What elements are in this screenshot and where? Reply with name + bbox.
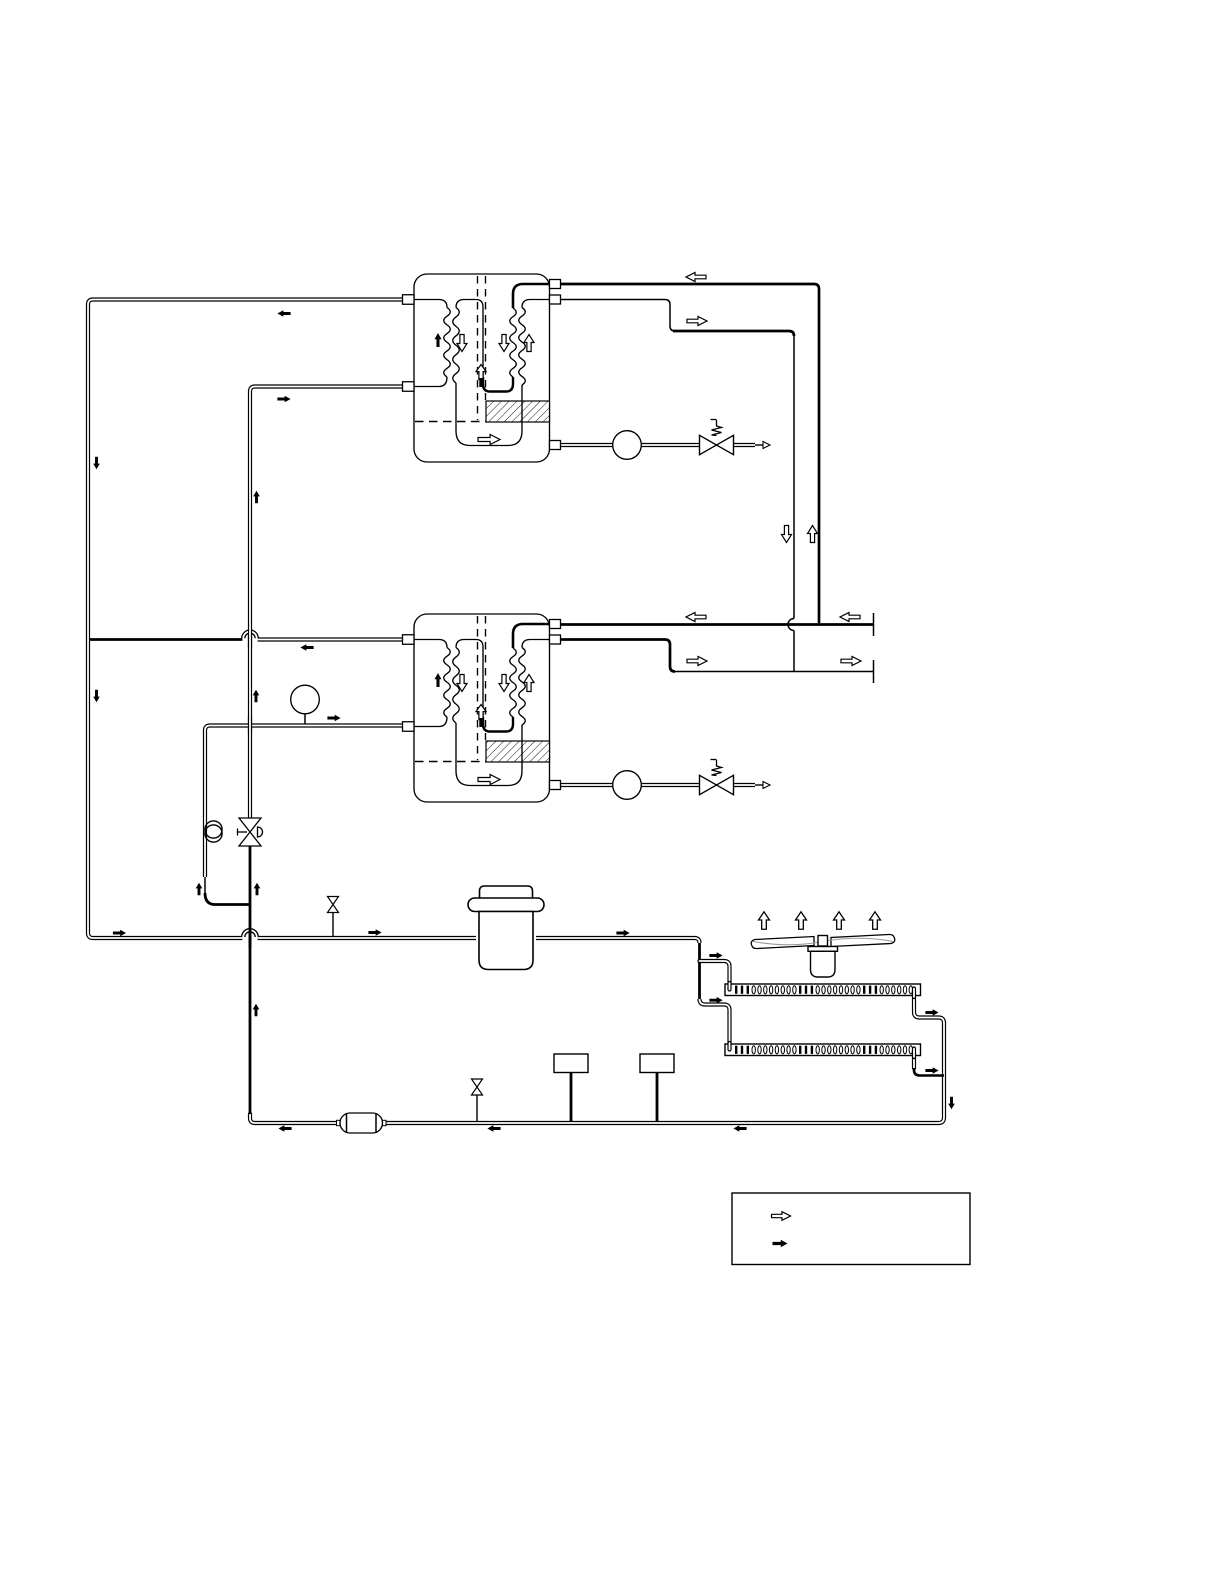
wire liquid line from tank E1 lower-left stub down left — [250, 387, 414, 820]
wire branch to condenser row 1 — [700, 961, 730, 989]
arrow up right coil E1 — [524, 335, 534, 352]
pipe bridge hop at 250,639 — [242, 630, 259, 638]
compressor C1 — [468, 886, 544, 970]
flow arrow at 334,718 — [327, 715, 340, 722]
wire right riser with hop over lower header — [793, 335, 795, 619]
flow arrow at 256,696 — [253, 690, 260, 703]
sight glass / capillary loop — [205, 821, 222, 838]
wire from tank E1 bottom stub to pump — [561, 443, 613, 447]
liquid level dashed line E2 — [415, 761, 487, 763]
coil 1 inlet link E2 — [414, 640, 447, 648]
flow arrow at 375,932.5 — [368, 929, 381, 936]
center tube and top link E2 — [456, 640, 483, 724]
air flow arrow x=801 — [796, 912, 807, 930]
flow arrow at 199,889 — [196, 883, 203, 896]
vertical passes over lower liquid line crossing — [248, 717, 252, 734]
stub left lower E2 — [403, 722, 415, 732]
dashed partition line left E2 — [477, 616, 479, 760]
wire condenser row2 outlet to junction (thick) — [914, 1068, 944, 1076]
coil 1 wavy exchanger tube E1 — [444, 308, 451, 378]
arrow up right coil E2 — [524, 675, 534, 692]
air flow arrow x=764 — [759, 912, 770, 930]
open flow arrow at 696,617 — [686, 613, 706, 622]
flow arrow at 256.5,497 — [253, 491, 260, 504]
wire lower return header thin — [673, 671, 874, 673]
arrow down center E2 — [499, 675, 509, 692]
liquid level dashed line E1 — [415, 421, 487, 423]
dashed partition line left E1 — [477, 276, 479, 420]
wire relief valve outlet — [734, 443, 756, 447]
arrow right bottom U E2 — [478, 775, 500, 785]
wire tank E2 lower-left stub line with left corner — [205, 726, 403, 878]
stub right bottom E2 — [550, 781, 561, 790]
flow arrow at 285,1128.5 — [278, 1125, 291, 1132]
open flow arrow at 850,617 — [840, 613, 860, 622]
relief valve V1 — [700, 435, 734, 454]
open up arrow right riser — [808, 526, 818, 543]
coil 1 wavy exchanger tube E2 — [444, 648, 451, 718]
legend open arrow — [772, 1212, 791, 1221]
stub right B E2 — [550, 635, 561, 644]
hatched distributor block E2 — [486, 741, 550, 762]
flow arrow at 257,889 — [254, 883, 261, 896]
arrow up (shell side) E2 — [435, 673, 442, 687]
flow arrow at 740,1128.5 — [733, 1125, 746, 1132]
stub right B E1 — [550, 295, 561, 304]
pressure switch PS1 — [570, 1072, 573, 1122]
legend filled arrow — [773, 1240, 788, 1248]
flow arrow at 494,1128.5 — [487, 1125, 500, 1132]
arrow right bottom U E1 — [478, 435, 500, 445]
arrow up center tube E2 — [476, 705, 486, 720]
wire tank E2 upper-left stub line (thick part) — [90, 638, 242, 641]
condenser coil row 1 — [725, 984, 921, 996]
flow arrow at 119.5,933 — [113, 930, 126, 937]
wire suction line from tank E1 to left main riser — [88, 300, 414, 939]
wire sight-glass branch bottom elbow (thick) — [205, 893, 250, 905]
open flow arrow at 851,661 — [841, 657, 861, 666]
arrow up (shell side) E1 — [435, 333, 442, 347]
heat exchanger tank E1 shell — [403, 274, 561, 462]
small outlet arrow — [755, 444, 763, 446]
wire tank E1 right second stub line — [561, 300, 675, 332]
coil 4 wavy tube E2 — [510, 648, 517, 717]
stub left upper E2 — [403, 635, 415, 645]
small outlet arrow — [755, 784, 763, 786]
arrow down coil E2 — [457, 675, 467, 692]
flow arrow at 96.5,696 — [93, 690, 100, 703]
bottom U tube E1 — [456, 383, 522, 446]
thick U-turn at bottom center E1 — [483, 377, 513, 392]
arrow down coil E1 — [457, 335, 467, 352]
stub left lower E1 — [403, 382, 415, 392]
wire hot-gas line from tank E1 right top stub (thick) — [561, 284, 819, 623]
flow arrow at 716,955.5 — [709, 952, 722, 959]
wire hop of E2 line over vertical riser — [258, 637, 403, 641]
pump P2 — [613, 771, 642, 800]
flow arrow at 951.5,1103 — [948, 1097, 955, 1110]
coil 1 outlet link E1 — [414, 377, 447, 387]
coil 2 wavy tube E2 — [453, 648, 460, 724]
pressure switch PS2 — [656, 1072, 659, 1122]
stub left upper E1 — [403, 295, 415, 305]
legend box — [732, 1193, 970, 1265]
fan motor — [808, 947, 838, 952]
service valve SV2 with stem — [332, 912, 334, 937]
flow arrow at 307,647.5 — [300, 644, 313, 651]
coil 1 outlet link E2 — [414, 717, 447, 727]
wire discharge line from compressor to condenser — [698, 941, 701, 1001]
wire relief valve outlet — [734, 783, 756, 787]
coil 3 top link to stub B E1 — [522, 300, 550, 308]
coil 2 wavy tube E1 — [453, 308, 460, 384]
pressure gauge G1 — [291, 685, 320, 714]
wire lower section of sight-glass branch — [204, 877, 206, 898]
coil row1 inlet stub — [727, 983, 731, 990]
flow arrow at 96.5,463 — [93, 457, 100, 470]
arrow up center tube E1 — [476, 365, 486, 380]
filter drier FD1 — [337, 1120, 341, 1125]
stub right A E1 — [550, 280, 561, 289]
coil row2 inlet stub — [727, 1043, 731, 1050]
wire pump to relief valve — [642, 783, 701, 787]
open flow arrow at 697,661 — [687, 657, 707, 666]
flow arrow at 716,1000.2 — [709, 997, 722, 1004]
wire from 3-way valve down (thick) — [249, 845, 252, 1114]
wire tank E2 right second stub line (thick) — [561, 640, 675, 672]
coil row2 outlet stub — [912, 1049, 916, 1058]
coil 3 wavy tube E1 — [519, 308, 526, 386]
center tube and top link E1 — [456, 300, 483, 384]
thick top line to stub A E1 — [513, 284, 550, 308]
wire from tank E2 bottom stub to pump — [561, 783, 613, 787]
flow arrow at 623,933 — [616, 930, 629, 937]
three-way solenoid valve SV1 — [239, 818, 261, 832]
coil 3 top link to stub B E2 — [522, 640, 550, 648]
coil 1 inlet link E1 — [414, 300, 447, 308]
flow arrow at 932,1012.5 — [925, 1009, 938, 1016]
air flow arrow x=875 — [870, 912, 881, 930]
stub right bottom E1 — [550, 441, 561, 450]
heat exchanger tank E2 shell — [403, 614, 561, 802]
wire condenser row2 outlet vertical — [912, 1047, 916, 1068]
wire pump to relief valve — [642, 443, 701, 447]
hatched distributor block E1 — [486, 401, 550, 422]
condenser fan blades — [751, 934, 895, 951]
service valve SV3 with stem — [476, 1095, 478, 1122]
condenser coil row 2 — [725, 1044, 921, 1056]
wire gauge stem — [304, 713, 306, 724]
arrow down center E1 — [499, 335, 509, 352]
dashed partition line right E2 — [485, 616, 487, 740]
thick U-turn at bottom center E2 — [483, 717, 513, 732]
flow arrow at 284,313.5 — [277, 310, 290, 317]
flow arrow at 284,399 — [277, 396, 290, 403]
stub right A E2 — [550, 620, 561, 629]
flow arrow at 256,1010 — [253, 1004, 260, 1017]
open flow arrow at 697,321 — [687, 317, 707, 326]
open flow arrow at 696,277 — [686, 273, 706, 282]
pipe end tick upper — [873, 613, 875, 636]
pump P1 — [613, 431, 642, 460]
coil 4 wavy tube E1 — [510, 308, 517, 377]
open down arrow left riser — [782, 526, 792, 543]
pipe bridge hop at 250,938 — [242, 929, 259, 937]
dashed partition line right E1 — [485, 276, 487, 400]
coil row1 outlet stub — [912, 989, 916, 998]
thick top line to stub A E2 — [513, 624, 550, 648]
relief valve V2 — [700, 775, 734, 794]
pipe end tick lower — [873, 660, 875, 683]
wire thick middle horizontal to right riser — [673, 331, 794, 336]
wire condenser row1 outlet to liquid line — [250, 987, 944, 1123]
air flow arrow x=839 — [834, 912, 845, 930]
wire lower right header (thick) to pipe end — [561, 623, 874, 626]
coil 3 wavy tube E2 — [519, 648, 526, 726]
bottom U tube E2 — [456, 723, 522, 786]
flow arrow at 932,1070.5 — [925, 1067, 938, 1074]
